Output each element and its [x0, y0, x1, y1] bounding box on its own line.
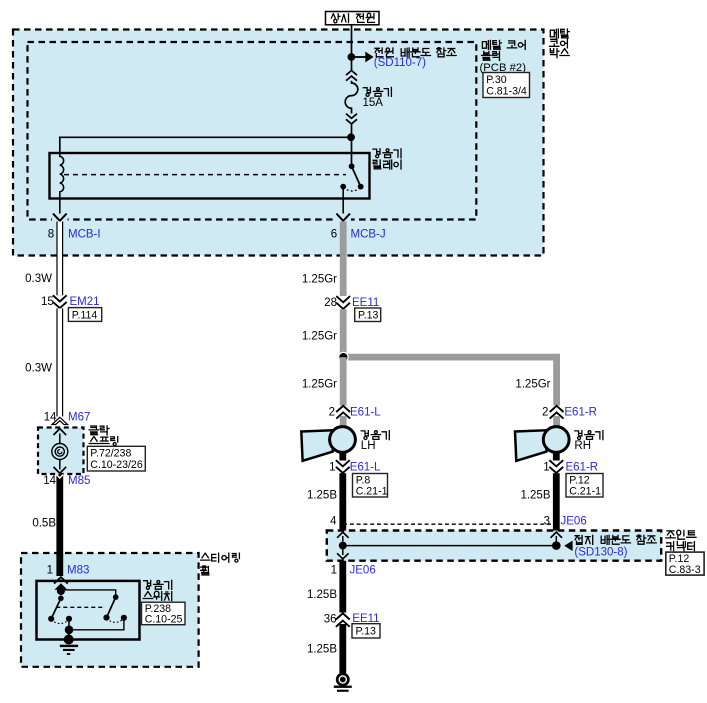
- ref box P.12 C.83-3: [666, 552, 704, 575]
- wire 1.25Gr: EE11 to splice: [340, 309, 347, 357]
- svg-text:1.25Gr: 1.25Gr: [302, 379, 337, 391]
- fuse element S-curve: [345, 81, 358, 114]
- svg-text:0.5B: 0.5B: [32, 517, 56, 529]
- svg-text:C.83-3: C.83-3: [669, 564, 701, 576]
- junction dot at power distribution tap: [348, 53, 356, 61]
- svg-text:P.114: P.114: [72, 309, 98, 321]
- joint connector: left junction dot: [339, 542, 347, 550]
- wire: fuse to relay splice: [351, 124, 353, 137]
- label: metal core box (right of outer box): [550, 29, 569, 38]
- svg-text:MCB-J: MCB-J: [351, 228, 386, 240]
- in-line connector EM21 chevrons: [53, 295, 67, 301]
- svg-text:(SD110-7): (SD110-7): [374, 57, 426, 69]
- right dotted travel arc: [107, 618, 124, 622]
- horn LH label 경음기 LH: [361, 431, 389, 440]
- relay switch: fixed contact top: [349, 163, 355, 169]
- fuse bottom chevrons: [346, 114, 357, 119]
- switch labels 경음기 스위치: [144, 580, 172, 589]
- labels 클락 스프링: [89, 426, 109, 435]
- svg-text:RH: RH: [574, 440, 591, 452]
- JE06 connector dashed pin line: [343, 523, 556, 525]
- left switch arm: [51, 598, 61, 619]
- wire: right contact down and across to ground bus: [69, 618, 124, 630]
- wire out of spiral: [59, 460, 61, 470]
- svg-text:4: 4: [330, 515, 337, 527]
- svg-text:P.12: P.12: [669, 553, 690, 565]
- wire 1.25Gr gray: MCB-J to EE11: [340, 222, 347, 297]
- wire: battery feed down from constant power box: [351, 25, 353, 71]
- svg-text:C.10-25: C.10-25: [145, 614, 183, 626]
- relay switch: dotted travel arc: [343, 187, 361, 191]
- svg-text:M67: M67: [68, 412, 90, 424]
- right pole contact dot: [113, 594, 119, 600]
- svg-text:15A: 15A: [363, 97, 384, 109]
- svg-text:M85: M85: [68, 475, 90, 487]
- connector E61-R pin 1 chevrons: [552, 461, 561, 472]
- svg-text:36: 36: [324, 613, 337, 625]
- svg-text:JE06: JE06: [350, 564, 376, 576]
- clock spring entry chevron: [54, 429, 67, 435]
- in-line connector EE11 chevrons (pin 28): [339, 296, 348, 308]
- relay 경음기 릴레이 - body rectangle: [50, 153, 370, 199]
- horn switch rectangle: [37, 581, 140, 640]
- fuse label 경음기 15A: [363, 87, 391, 96]
- svg-text:1: 1: [331, 564, 337, 576]
- ref box P.30 C.81-3/4: [483, 73, 530, 98]
- clock spring dashed box: [38, 428, 84, 475]
- svg-text:3: 3: [544, 515, 550, 527]
- wire to box edge: [68, 630, 70, 640]
- svg-text:1: 1: [543, 461, 549, 473]
- svg-text:1.25Gr: 1.25Gr: [302, 273, 337, 285]
- label: refer to ground distribution (접지 배분도 참조): [575, 535, 656, 544]
- svg-text:1.25Gr: 1.25Gr: [302, 331, 337, 343]
- ref box P.8 C.21-1: [353, 474, 388, 498]
- right lower contact dot: [121, 615, 127, 621]
- left arm end dot: [48, 616, 54, 622]
- wire 1.25B: E61-L to joint connector: [339, 473, 346, 531]
- joint connector dashed box: [327, 531, 661, 561]
- ref box P.238 C.10-25: [142, 602, 186, 625]
- label 조인트 커넥터: [666, 530, 696, 539]
- svg-text:C.81-3/4: C.81-3/4: [486, 86, 527, 98]
- horn RH label 경음기 RH: [575, 431, 603, 440]
- branch wire to right switch pole: [61, 590, 116, 597]
- wire: left contact down to ground bus: [68, 619, 70, 630]
- svg-text:14: 14: [43, 475, 56, 487]
- connector E61-L pin 1 chevrons: [338, 461, 347, 472]
- joint connector: left wire entry chevron: [337, 532, 349, 538]
- svg-text:8: 8: [48, 228, 54, 240]
- relay switch: arm end contact: [358, 184, 364, 190]
- svg-text:C.21-1: C.21-1: [356, 486, 388, 498]
- ref box P.13: [355, 308, 381, 322]
- wire 0.5B black: clock spring to horn switch: [56, 475, 63, 577]
- right arm end dot: [103, 615, 109, 621]
- connector E61-L pin 2 chevrons: [339, 406, 348, 418]
- svg-text:P.72/238: P.72/238: [90, 447, 131, 459]
- joint connector: right junction dot: [552, 541, 561, 550]
- ref box P.114: [68, 308, 101, 322]
- relay label 경음기 릴레이: [373, 149, 401, 158]
- ground symbol below switch: [60, 645, 78, 647]
- dot at box edge: [64, 635, 74, 645]
- wire end arrow tip into clock spring (M67): [52, 417, 68, 424]
- junction dot above relay: [347, 133, 355, 141]
- wire: splice to relay coil (horizontal + down): [60, 137, 351, 153]
- svg-text:1: 1: [329, 461, 335, 473]
- wire into spiral: [59, 434, 61, 444]
- svg-text:P.12: P.12: [569, 474, 590, 486]
- svg-text:P.8: P.8: [356, 474, 371, 486]
- svg-text:15: 15: [41, 296, 54, 308]
- relay coil winding: [60, 153, 64, 199]
- svg-text:C.21-1: C.21-1: [569, 486, 601, 498]
- wire: LH horn to E61-L pin 1: [339, 452, 346, 461]
- left lower contact dot: [66, 616, 72, 622]
- svg-text:C.10-23/26: C.10-23/26: [90, 459, 143, 471]
- svg-text:(SD130-8): (SD130-8): [574, 546, 627, 558]
- wire into RH horn: [553, 416, 560, 427]
- clock spring exit chevron: [54, 467, 67, 473]
- svg-text:E61-L: E61-L: [350, 461, 381, 473]
- arrow: ground distribution reference (points left): [564, 541, 572, 551]
- left pole contact dot: [58, 596, 64, 602]
- pin arrow MCB-J: [335, 214, 351, 224]
- svg-text:MCB-I: MCB-I: [68, 228, 101, 240]
- horn RH symbol: trapezoid: [515, 430, 547, 461]
- svg-text:E61-R: E61-R: [564, 406, 597, 418]
- fuse 경음기 15A - top removable chevrons: [346, 71, 357, 76]
- relay mechanical dashed link: [64, 174, 346, 176]
- svg-text:EM21: EM21: [70, 296, 100, 308]
- junction dot (switch feed): [57, 587, 65, 595]
- ref box P.72/238 C.10-23/26: [87, 446, 145, 471]
- clock spring spiral symbol: [52, 444, 68, 460]
- wire 0.3W white: EM21 to M67: [56, 308, 63, 416]
- in-line connector EE11 chevrons (pin 36, up): [338, 613, 347, 624]
- horn RH symbol: circle: [543, 427, 569, 453]
- arrow: power distribution reference (points right): [365, 52, 373, 63]
- wire: RH horn to E61-R pin 1: [553, 452, 560, 461]
- svg-text:E61-L: E61-L: [350, 406, 381, 418]
- wire into LH horn: [340, 416, 347, 427]
- svg-text:1.25B: 1.25B: [307, 490, 337, 502]
- label 스티어링 휠: [201, 553, 240, 562]
- svg-text:1.25B: 1.25B: [520, 490, 550, 502]
- wire 0.3W white: MCB-I to EM21: [56, 222, 63, 296]
- wire 1.25Gr: splice to LH horn connector: [340, 357, 347, 405]
- wire: tap to power-distribution reference arrow: [354, 56, 366, 58]
- svg-text:P.13: P.13: [358, 310, 379, 322]
- svg-text:28: 28: [324, 297, 337, 309]
- svg-text:LH: LH: [361, 440, 376, 452]
- svg-text:E61-R: E61-R: [566, 461, 599, 473]
- wire 1.25B: E61-R to joint connector: [553, 473, 560, 531]
- left dotted travel arc: [51, 620, 69, 624]
- pin arrow MCB-I (open chevron at dashed edge): [52, 214, 68, 224]
- relay switch: movable arm: [352, 166, 361, 186]
- wire 1.25B: EE11 to ground: [339, 624, 346, 673]
- svg-text:1.25B: 1.25B: [307, 643, 337, 655]
- svg-text:1.25Gr: 1.25Gr: [515, 379, 550, 391]
- inner dashed box (metal core block PCB #2): [28, 42, 477, 220]
- svg-text:EE11: EE11: [352, 297, 379, 309]
- svg-text:14: 14: [44, 412, 57, 424]
- steering wheel dashed box: [21, 553, 199, 667]
- joint connector: internal bus bar: [343, 545, 557, 547]
- ground symbol G (circle with dot): [337, 674, 348, 685]
- svg-text:0.3W: 0.3W: [25, 362, 52, 374]
- horn LH symbol: trapezoid: [301, 430, 333, 461]
- svg-text:2: 2: [542, 406, 548, 418]
- switch mechanical dashed link: [56, 606, 104, 608]
- wire 1.25Gr horizontal splice to RH branch: [343, 357, 556, 405]
- wire: relay switch output down to MCB-J pin: [342, 187, 344, 215]
- svg-text:2: 2: [329, 406, 335, 418]
- relay switch: output contact: [340, 184, 346, 190]
- splice junction dot (white ring): [338, 352, 349, 363]
- ref box P.13 (bottom): [352, 624, 380, 638]
- relay box outer (metal core box) dashed blue container: [13, 30, 544, 256]
- svg-text:1.25B: 1.25B: [307, 589, 337, 601]
- svg-text:1: 1: [47, 564, 53, 576]
- ground bus junction dot: [65, 626, 74, 635]
- svg-text:P.30: P.30: [486, 74, 507, 86]
- label: refer to power distribution (전원 배분도 참조): [375, 48, 456, 57]
- right switch arm: [107, 597, 116, 618]
- horn LH symbol: circle: [330, 427, 356, 453]
- connector E61-R pin 2 chevrons: [552, 406, 561, 418]
- wire: splice down to relay switch contact: [351, 137, 353, 166]
- svg-text:P.13: P.13: [356, 626, 377, 638]
- node: constant power label box (상시 전원): [326, 12, 380, 25]
- svg-text:0.3W: 0.3W: [25, 273, 52, 285]
- svg-text:JE06: JE06: [561, 515, 587, 527]
- svg-text:M83: M83: [67, 564, 89, 576]
- wire: relay coil output down to MCB-I pin: [59, 199, 61, 216]
- joint connector: right wire entry chevron: [551, 532, 563, 538]
- joint connector: left exit wire + chevron: [342, 550, 344, 555]
- horn switch entry chevrons: [54, 577, 68, 583]
- label: metal core block (PCB #2): [482, 40, 525, 49]
- wire entry to junction: [60, 588, 62, 592]
- wire 1.25B: joint connector to EE11: [339, 561, 346, 613]
- ref box P.12 C.21-1: [566, 474, 603, 498]
- svg-text:6: 6: [331, 228, 337, 240]
